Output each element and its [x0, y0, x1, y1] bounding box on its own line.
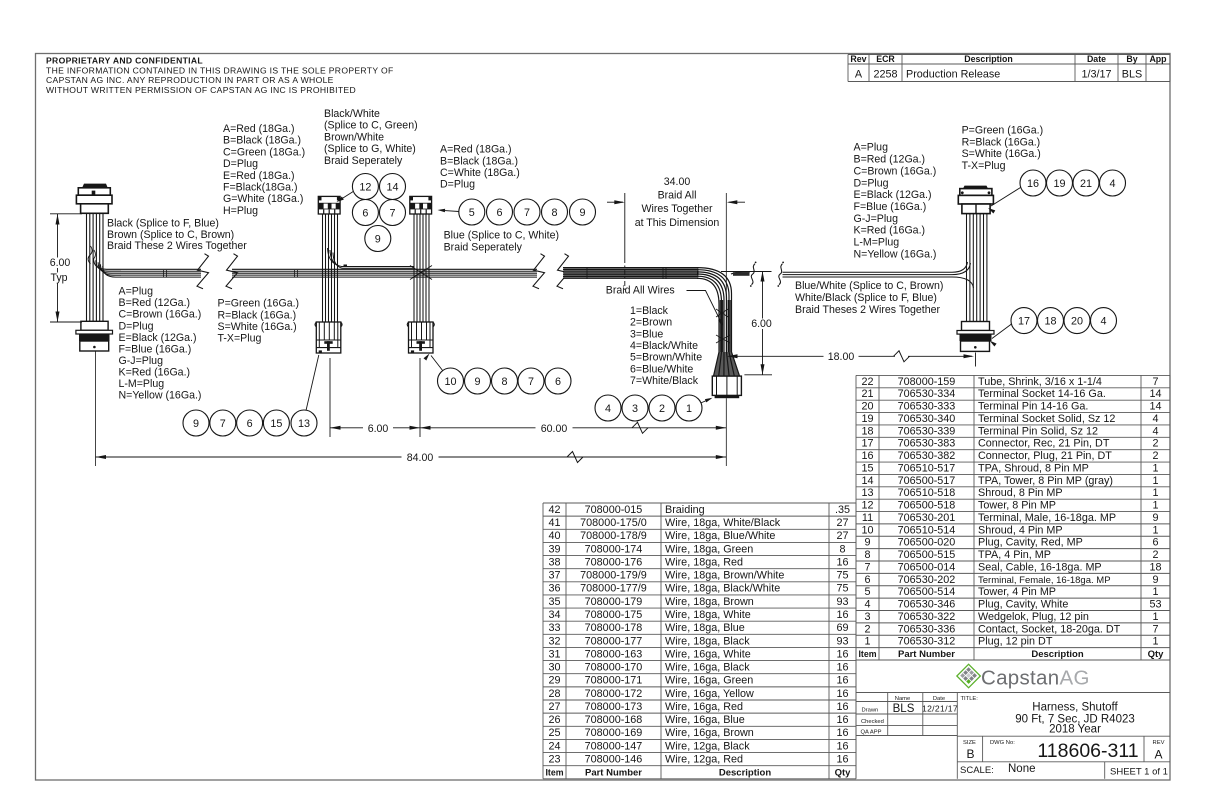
balloon 6 [352, 200, 378, 226]
leader balloon 16 to P5 [991, 188, 1021, 207]
svg-text:Part Number: Part Number [585, 767, 642, 778]
svg-text:QA APP: QA APP [861, 730, 882, 736]
svg-text:Tower, 4 Pin MP: Tower, 4 Pin MP [978, 586, 1056, 598]
svg-text:(Splice to G, White): (Splice to G, White) [324, 143, 416, 155]
svg-text:Name: Name [895, 696, 910, 702]
svg-text:Terminal, Female, 16-18ga. MP: Terminal, Female, 16-18ga. MP [978, 575, 1111, 586]
balloon 14 [380, 174, 406, 200]
svg-text:27: 27 [836, 530, 848, 542]
svg-text:6.00: 6.00 [368, 423, 389, 435]
left parts table [543, 503, 856, 779]
svg-text:Blue/White (Splice to C, Brown: Blue/White (Splice to C, Brown) [795, 280, 943, 292]
svg-text:6: 6 [247, 418, 253, 430]
svg-text:4: 4 [1152, 425, 1158, 437]
svg-text:21: 21 [861, 388, 873, 400]
svg-text:19: 19 [861, 413, 873, 425]
svg-text:N=Yellow (16Ga.): N=Yellow (16Ga.) [119, 390, 202, 402]
balloon 7 [380, 200, 406, 226]
svg-text:E=Black (12Ga.): E=Black (12Ga.) [854, 189, 932, 201]
svg-text:Drawn: Drawn [862, 708, 879, 714]
svg-text:TPA, 4 Pin, MP: TPA, 4 Pin, MP [978, 549, 1051, 561]
svg-text:2258: 2258 [873, 69, 897, 81]
svg-text:6=Blue/White: 6=Blue/White [630, 363, 693, 375]
svg-text:App: App [1149, 54, 1167, 64]
svg-text:1: 1 [1152, 611, 1158, 623]
svg-text:708000-178: 708000-178 [585, 622, 643, 634]
svg-text:Terminal Socket 14-16 Ga.: Terminal Socket 14-16 Ga. [978, 388, 1106, 400]
svg-text:6: 6 [1152, 537, 1158, 549]
svg-text:1: 1 [1152, 636, 1158, 648]
svg-text:706530-339: 706530-339 [898, 425, 956, 437]
wire bundle left drop [87, 213, 104, 321]
svg-text:1: 1 [1152, 500, 1158, 512]
svg-text:C=White (18Ga.): C=White (18Ga.) [440, 167, 520, 179]
svg-text:P=Green (16Ga.): P=Green (16Ga.) [962, 125, 1044, 137]
svg-text:L-M=Plug: L-M=Plug [854, 237, 900, 249]
svg-text:708000-172: 708000-172 [585, 688, 643, 700]
svg-text:706530-312: 706530-312 [898, 636, 956, 648]
svg-text:7: 7 [524, 207, 530, 219]
svg-text:17: 17 [861, 438, 873, 450]
svg-text:4: 4 [1152, 413, 1158, 425]
svg-text:39: 39 [548, 543, 560, 555]
svg-text:708000-168: 708000-168 [585, 714, 643, 726]
svg-text:Qty: Qty [835, 767, 852, 778]
svg-text:7: 7 [1152, 376, 1158, 388]
svg-text:7: 7 [220, 418, 226, 430]
svg-text:36: 36 [548, 583, 560, 595]
svg-text:40: 40 [548, 530, 560, 542]
svg-text:A: A [1154, 748, 1162, 762]
svg-text:3=Blue: 3=Blue [630, 328, 663, 340]
svg-text:35: 35 [548, 596, 560, 608]
svg-text:118606-311: 118606-311 [1037, 740, 1138, 762]
svg-text:Wires Together: Wires Together [641, 203, 713, 215]
svg-text:708000-178/9: 708000-178/9 [580, 530, 647, 542]
svg-text:16: 16 [836, 648, 848, 660]
svg-text:Wire, 16ga, Yellow: Wire, 16ga, Yellow [665, 688, 754, 700]
balloon 6b [487, 199, 513, 225]
svg-text:708000-179/9: 708000-179/9 [580, 570, 647, 582]
svg-text:Terminal Pin Solid, Sz 12: Terminal Pin Solid, Sz 12 [978, 425, 1098, 437]
connector P5 tower 21 pin (right top) [958, 186, 993, 214]
svg-text:Shroud, 8 Pin MP: Shroud, 8 Pin MP [978, 487, 1063, 499]
svg-text:G-J=Plug: G-J=Plug [854, 213, 899, 225]
svg-text:93: 93 [836, 596, 848, 608]
break symbol trunk mid [533, 254, 545, 289]
svg-text:Production Release: Production Release [906, 69, 1000, 81]
svg-text:9: 9 [193, 418, 199, 430]
svg-text:TITLE:: TITLE: [961, 696, 979, 702]
title block [856, 660, 1170, 779]
svg-text:12: 12 [359, 181, 371, 193]
svg-text:K=Red (16Ga.): K=Red (16Ga.) [854, 225, 926, 237]
svg-text:Wire, 18ga, Black/White: Wire, 18ga, Black/White [665, 583, 780, 595]
svg-text:Qty: Qty [1148, 649, 1165, 660]
svg-text:13: 13 [861, 487, 873, 499]
svg-text:9: 9 [375, 233, 381, 245]
svg-text:Connector, Rec, 21 Pin, DT: Connector, Rec, 21 Pin, DT [978, 438, 1110, 450]
svg-text:708000-174: 708000-174 [585, 543, 643, 555]
svg-text:Wire, 12ga, Black: Wire, 12ga, Black [665, 740, 750, 752]
svg-text:706530-333: 706530-333 [898, 401, 956, 413]
svg-text:706510-517: 706510-517 [898, 462, 956, 474]
svg-text:6: 6 [496, 207, 502, 219]
svg-text:A=Plug: A=Plug [119, 286, 154, 298]
svg-text:26: 26 [548, 714, 560, 726]
svg-text:A=Red (18Ga.): A=Red (18Ga.) [223, 123, 295, 135]
svg-text:H=Plug: H=Plug [223, 205, 258, 217]
svg-text:1: 1 [1152, 462, 1158, 474]
svg-text:2: 2 [659, 403, 665, 415]
balloon 12 [352, 174, 378, 200]
svg-text:.35: .35 [835, 504, 850, 516]
svg-text:16: 16 [861, 450, 873, 462]
svg-text:2: 2 [1152, 450, 1158, 462]
svg-text:ECR: ECR [876, 54, 895, 64]
svg-text:4=Black/White: 4=Black/White [630, 340, 698, 352]
svg-text:Terminal Pin 14-16 Ga.: Terminal Pin 14-16 Ga. [978, 401, 1088, 413]
svg-text:Wire, 18ga, Blue/White: Wire, 18ga, Blue/White [665, 530, 775, 542]
svg-text:Terminal, Male, 16-18ga. MP: Terminal, Male, 16-18ga. MP [978, 512, 1116, 524]
svg-text:D=Plug: D=Plug [854, 177, 889, 189]
svg-text:Wire, 18ga, Green: Wire, 18ga, Green [665, 543, 753, 555]
svg-text:16: 16 [836, 727, 848, 739]
svg-text:706530-382: 706530-382 [898, 450, 956, 462]
svg-text:Plug, Cavity, Red, MP: Plug, Cavity, Red, MP [978, 537, 1083, 549]
svg-text:Braiding: Braiding [665, 504, 705, 516]
leader balloon 12 to P2 [339, 191, 354, 201]
svg-text:12/21/17: 12/21/17 [922, 704, 958, 714]
svg-text:10: 10 [444, 376, 456, 388]
svg-text:Date: Date [1087, 54, 1106, 64]
wire trunk segment 1 [121, 269, 201, 277]
svg-text:15: 15 [861, 462, 873, 474]
svg-text:2: 2 [864, 623, 870, 635]
svg-text:Brown (Splice to C, Brown): Brown (Splice to C, Brown) [107, 229, 234, 241]
svg-text:9: 9 [1152, 512, 1158, 524]
svg-text:Harness, Shutoff: Harness, Shutoff [1032, 702, 1118, 714]
svg-text:Shroud, 4 Pin MP: Shroud, 4 Pin MP [978, 524, 1063, 536]
svg-text:706530-340: 706530-340 [898, 413, 956, 425]
leader balloon 13 to J2 [306, 355, 319, 411]
svg-text:D=Plug: D=Plug [119, 320, 154, 332]
svg-text:D=Plug: D=Plug [440, 179, 475, 191]
svg-text:706530-201: 706530-201 [898, 512, 956, 524]
wire bend into drop [697, 268, 740, 376]
svg-text:25: 25 [548, 727, 560, 739]
svg-text:1: 1 [1152, 524, 1158, 536]
svg-text:C=Brown (16Ga.): C=Brown (16Ga.) [119, 309, 202, 321]
balloon row 17 18 20 4 [1011, 308, 1037, 334]
svg-text:B=Black (18Ga.): B=Black (18Ga.) [223, 135, 301, 147]
dimension 34.00 braid [607, 193, 745, 292]
svg-text:T-X=Plug: T-X=Plug [218, 332, 262, 344]
svg-text:Wire, 18ga, White: Wire, 18ga, White [665, 609, 751, 621]
balloon row 4 3 2 1 [595, 395, 621, 421]
svg-text:C=Green (18Ga.): C=Green (18Ga.) [223, 146, 305, 158]
connector J2 shroud (8 pin MP) [315, 322, 342, 353]
break symbol wire pair [751, 264, 755, 285]
svg-text:20: 20 [861, 401, 873, 413]
wire bundle right drop [967, 214, 987, 322]
svg-text:Contact, Socket, 18-20ga. DT: Contact, Socket, 18-20ga. DT [978, 623, 1121, 635]
svg-text:12: 12 [861, 500, 873, 512]
svg-text:SCALE:: SCALE: [960, 765, 994, 776]
svg-text:2: 2 [1152, 549, 1158, 561]
svg-text:18: 18 [1044, 315, 1056, 327]
svg-text:16: 16 [836, 688, 848, 700]
svg-text:708000-175/0: 708000-175/0 [580, 517, 647, 529]
svg-text:Wire, 12ga, Red: Wire, 12ga, Red [665, 753, 743, 765]
svg-text:Braid Theses 2 Wires Together: Braid Theses 2 Wires Together [795, 304, 941, 316]
extension line below drop [725, 398, 727, 466]
svg-text:16: 16 [836, 609, 848, 621]
svg-text:8: 8 [501, 376, 507, 388]
svg-text:T-X=Plug: T-X=Plug [962, 160, 1006, 172]
svg-text:Terminal Socket Solid, Sz 12: Terminal Socket Solid, Sz 12 [978, 413, 1115, 425]
leader balloon 5 to P3 [441, 210, 459, 211]
svg-text:Tube, Shrink, 3/16 x 1-1/4: Tube, Shrink, 3/16 x 1-1/4 [978, 376, 1102, 388]
svg-text:Date: Date [933, 696, 945, 702]
svg-text:4: 4 [1109, 178, 1115, 190]
svg-text:WITHOUT WRITTEN PERMISSION OF: WITHOUT WRITTEN PERMISSION OF CAPSTAN AG… [46, 85, 356, 95]
svg-text:Braid All: Braid All [658, 190, 697, 202]
svg-text:B=Black (18Ga.): B=Black (18Ga.) [440, 155, 518, 167]
svg-text:4: 4 [1100, 315, 1106, 327]
svg-text:19: 19 [1053, 178, 1065, 190]
svg-text:706510-514: 706510-514 [898, 524, 956, 536]
svg-text:708000-015: 708000-015 [585, 504, 643, 516]
svg-text:708000-175: 708000-175 [585, 609, 643, 621]
svg-text:15: 15 [270, 418, 282, 430]
svg-text:B=Red (12Ga.): B=Red (12Ga.) [854, 154, 926, 166]
revision table [848, 54, 1170, 82]
svg-text:27: 27 [548, 701, 560, 713]
svg-text:Blue (Splice to C, White): Blue (Splice to C, White) [444, 229, 559, 241]
svg-text:17: 17 [1018, 315, 1030, 327]
svg-text:PROPRIETARY AND CONFIDENTIAL: PROPRIETARY AND CONFIDENTIAL [46, 56, 203, 66]
svg-text:6.00: 6.00 [50, 257, 71, 269]
leader balloon 10 to J3 [431, 356, 443, 372]
svg-text:7: 7 [1152, 623, 1158, 635]
leader balloon 1 to J4 [700, 399, 711, 404]
svg-text:33: 33 [548, 622, 560, 634]
connector J3 shroud (4 pin MP) [407, 322, 434, 353]
svg-text:1: 1 [686, 403, 692, 415]
break symbol trunk left [197, 254, 209, 289]
svg-text:16: 16 [836, 556, 848, 568]
svg-text:SIZE: SIZE [963, 740, 976, 746]
svg-text:16: 16 [836, 753, 848, 765]
svg-text:706530-383: 706530-383 [898, 438, 956, 450]
svg-text:706530-336: 706530-336 [898, 623, 956, 635]
svg-text:8: 8 [864, 549, 870, 561]
svg-text:706530-322: 706530-322 [898, 611, 956, 623]
svg-text:Item: Item [858, 649, 876, 659]
svg-text:75: 75 [836, 583, 848, 595]
CapstanAG logo [957, 664, 1090, 689]
svg-text:9: 9 [579, 207, 585, 219]
balloon 7b [514, 199, 540, 225]
svg-text:N=Yellow (16Ga.): N=Yellow (16Ga.) [854, 248, 937, 260]
connector P1 tower (left) [76, 184, 112, 214]
svg-text:A: A [855, 69, 863, 81]
svg-text:F=Blue (16Ga.): F=Blue (16Ga.) [119, 343, 192, 355]
svg-text:708000-170: 708000-170 [585, 662, 643, 674]
svg-text:Description: Description [964, 54, 1012, 64]
svg-text:S=White (16Ga.): S=White (16Ga.) [962, 148, 1041, 160]
balloon 9 [365, 226, 391, 252]
svg-text:G=White (18Ga.): G=White (18Ga.) [223, 193, 303, 205]
svg-text:27: 27 [836, 517, 848, 529]
svg-text:21: 21 [1080, 178, 1092, 190]
svg-text:708000-173: 708000-173 [585, 701, 643, 713]
svg-text:34.00: 34.00 [664, 176, 691, 188]
svg-text:10: 10 [861, 524, 873, 536]
svg-text:7: 7 [864, 561, 870, 573]
balloon 9b [570, 199, 596, 225]
dimension 84.00 [96, 351, 727, 466]
svg-text:SHEET 1 of 1: SHEET 1 of 1 [1110, 767, 1168, 778]
svg-text:P=Green (16Ga.): P=Green (16Ga.) [218, 298, 300, 310]
connector P2 tower (8 pin MP) [318, 196, 340, 214]
svg-text:37: 37 [548, 570, 560, 582]
svg-text:6: 6 [555, 376, 561, 388]
svg-text:2=Brown: 2=Brown [630, 317, 672, 329]
svg-text:F=Blue (16Ga.): F=Blue (16Ga.) [854, 201, 927, 213]
svg-text:706530-334: 706530-334 [898, 388, 956, 400]
svg-text:Wire, 16ga, Blue: Wire, 16ga, Blue [665, 714, 745, 726]
svg-text:CapstanAG: CapstanAG [981, 667, 1090, 690]
svg-text:Item: Item [545, 767, 563, 777]
svg-text:Wire, 18ga, White/Black: Wire, 18ga, White/Black [665, 517, 781, 529]
svg-text:Wire, 16ga, Brown: Wire, 16ga, Brown [665, 727, 754, 739]
svg-text:84.00: 84.00 [407, 452, 434, 464]
svg-text:CAPSTAN AG INC. ANY REPRODUCTI: CAPSTAN AG INC. ANY REPRODUCTION IN PART… [46, 75, 334, 85]
svg-text:Plug, Cavity, White: Plug, Cavity, White [978, 599, 1068, 611]
svg-text:708000-147: 708000-147 [585, 740, 643, 752]
svg-text:708000-163: 708000-163 [585, 648, 643, 660]
svg-text:Wire, 18ga, Brown: Wire, 18ga, Brown [665, 596, 754, 608]
svg-text:Description: Description [719, 767, 771, 778]
dimension 60.00 [420, 422, 726, 435]
svg-text:Wedgelok, Plug, 12 pin: Wedgelok, Plug, 12 pin [978, 611, 1089, 623]
svg-text:41: 41 [548, 517, 560, 529]
svg-text:706530-202: 706530-202 [898, 574, 956, 586]
dimension 6.00 Typ [45, 214, 82, 322]
svg-text:BLS: BLS [893, 703, 915, 715]
svg-text:60.00: 60.00 [541, 423, 568, 435]
wire trunk braided segment [563, 268, 699, 279]
connector J1 receptacle (left bottom) [76, 321, 113, 351]
balloon row 16 19 21 4 [1020, 170, 1046, 196]
svg-text:75: 75 [836, 570, 848, 582]
svg-text:3: 3 [864, 611, 870, 623]
svg-text:A=Red (18Ga.): A=Red (18Ga.) [440, 144, 512, 156]
svg-text:Black/White: Black/White [324, 108, 380, 120]
svg-text:Typ: Typ [50, 272, 67, 284]
svg-text:1: 1 [1152, 475, 1158, 487]
svg-text:Plug, 12 pin DT: Plug, 12 pin DT [978, 636, 1053, 648]
svg-text:6.00: 6.00 [751, 318, 772, 330]
svg-text:708000-159: 708000-159 [898, 376, 956, 388]
svg-text:C=Brown (16Ga.): C=Brown (16Ga.) [854, 165, 937, 177]
svg-text:16: 16 [836, 740, 848, 752]
svg-text:Black (Splice to F, Blue): Black (Splice to F, Blue) [107, 218, 219, 230]
svg-text:DWG No:: DWG No: [990, 740, 1015, 746]
extension line at drop (under bundle) [725, 193, 727, 376]
svg-text:E=Black (12Ga.): E=Black (12Ga.) [119, 332, 197, 344]
svg-text:R=Black (16Ga.): R=Black (16Ga.) [962, 136, 1041, 148]
wire pair to right connector [731, 262, 974, 288]
svg-text:32: 32 [548, 635, 560, 647]
svg-text:Wire, 18ga, Black: Wire, 18ga, Black [665, 635, 750, 647]
svg-text:16: 16 [836, 714, 848, 726]
svg-text:706500-020: 706500-020 [898, 537, 956, 549]
svg-text:BLS: BLS [1122, 69, 1142, 81]
balloon 8 [542, 199, 568, 225]
svg-text:18: 18 [1149, 561, 1161, 573]
right parts table [856, 375, 1170, 660]
svg-text:A=Plug: A=Plug [854, 142, 889, 154]
svg-text:38: 38 [548, 556, 560, 568]
svg-text:THE INFORMATION CONTAINED IN T: THE INFORMATION CONTAINED IN THIS DRAWIN… [46, 66, 394, 76]
svg-text:93: 93 [836, 635, 848, 647]
svg-text:24: 24 [548, 740, 560, 752]
svg-text:1: 1 [864, 636, 870, 648]
leader balloon 17 to J5 [992, 324, 1012, 339]
svg-text:18.00: 18.00 [828, 351, 855, 363]
svg-text:16: 16 [836, 675, 848, 687]
svg-text:7=White/Black: 7=White/Black [630, 375, 699, 387]
svg-text:5: 5 [469, 207, 475, 219]
svg-text:9: 9 [1152, 574, 1158, 586]
svg-text:7: 7 [389, 207, 395, 219]
svg-text:1: 1 [1152, 586, 1158, 598]
svg-text:Braid Seperately: Braid Seperately [444, 241, 523, 253]
svg-text:708000-179: 708000-179 [585, 596, 643, 608]
svg-text:Checked: Checked [861, 719, 884, 725]
svg-text:69: 69 [836, 622, 848, 634]
svg-text:18: 18 [861, 425, 873, 437]
svg-text:7: 7 [528, 376, 534, 388]
svg-text:706500-515: 706500-515 [898, 549, 956, 561]
svg-text:28: 28 [548, 688, 560, 700]
svg-text:3: 3 [632, 403, 638, 415]
svg-text:708000-177: 708000-177 [585, 635, 643, 647]
svg-text:White/Black (Splice to F, Blue: White/Black (Splice to F, Blue) [795, 292, 937, 304]
svg-text:708000-177/9: 708000-177/9 [580, 583, 647, 595]
svg-text:Braid All Wires: Braid All Wires [606, 285, 675, 297]
svg-text:1: 1 [1152, 487, 1158, 499]
svg-text:11: 11 [862, 512, 873, 524]
balloon row 9 7 6 15 13 [183, 410, 209, 436]
svg-text:1/3/17: 1/3/17 [1081, 69, 1111, 81]
dimension 18.00 [727, 351, 976, 367]
wire trunk segment 2 [164, 269, 538, 277]
svg-text:Wire, 18ga, Blue: Wire, 18ga, Blue [665, 622, 745, 634]
svg-text:Wire, 16ga, White: Wire, 16ga, White [665, 648, 751, 660]
svg-text:None: None [1008, 763, 1036, 775]
svg-text:30: 30 [548, 662, 560, 674]
connector J4 plug 21 pin [712, 376, 741, 398]
svg-text:G-J=Plug: G-J=Plug [119, 355, 164, 367]
svg-text:Braid These 2 Wires Together: Braid These 2 Wires Together [107, 240, 247, 252]
svg-text:53: 53 [1149, 599, 1161, 611]
svg-text:Part Number: Part Number [898, 649, 955, 660]
svg-text:9: 9 [474, 376, 480, 388]
